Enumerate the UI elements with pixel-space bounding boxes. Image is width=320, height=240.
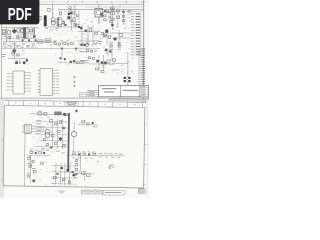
- inductor L1: [29, 30, 32, 32]
- IC U2: [7, 71, 31, 94]
- transistor Q23: [61, 167, 63, 169]
- PWM controller U1: [95, 4, 112, 24]
- capacitor C34: [68, 181, 70, 184]
- transformer T1: [21, 27, 28, 38]
- wire: [58, 9, 144, 11]
- wire: [112, 5, 114, 30]
- wire: [31, 125, 44, 127]
- diode D23: [73, 153, 76, 155]
- output rectifier D6: [128, 77, 130, 79]
- test points: [74, 76, 76, 86]
- wire: [3, 41, 56, 43]
- parts row right: [86, 50, 97, 60]
- net labels: [99, 41, 103, 44]
- capacitor bank C22: [109, 42, 113, 50]
- capacitor C6: [15, 61, 18, 64]
- net labels: [45, 28, 58, 31]
- fan motor M1: [71, 121, 77, 151]
- diode D4: [103, 61, 107, 65]
- resistor R32: [71, 171, 73, 173]
- capacitor C7b: [26, 59, 28, 61]
- diode D20: [63, 127, 65, 129]
- transistor Q1: [80, 27, 83, 30]
- svg-text:PDF: PDF: [8, 5, 32, 24]
- bridge rectifier BR2: [67, 10, 70, 20]
- transformer T2: [51, 17, 58, 26]
- fuse F1: [7, 28, 11, 42]
- resistor R25: [54, 142, 57, 144]
- ground: [18, 60, 21, 64]
- wire: [61, 49, 63, 57]
- diode D21: [58, 137, 62, 141]
- diode D22: [92, 122, 94, 124]
- wire: [68, 62, 90, 64]
- wire: [103, 10, 144, 12]
- capacitor C14: [110, 12, 114, 15]
- diode D24: [78, 153, 80, 155]
- capacitor C19: [119, 33, 123, 37]
- capacitor C31: [60, 120, 62, 123]
- wire: [51, 119, 53, 149]
- net label: [93, 125, 98, 128]
- left bottom parts: [27, 155, 37, 183]
- resistor R3: [48, 8, 51, 11]
- junction: [61, 48, 63, 50]
- wire: [81, 25, 83, 45]
- transformer T3 core: [67, 113, 70, 171]
- wire: [51, 165, 77, 167]
- wire: [69, 163, 71, 185]
- resistor R28: [83, 153, 86, 155]
- wire: [35, 120, 68, 123]
- net labels: [80, 51, 89, 61]
- transistor Q22: [45, 133, 50, 138]
- wire: [2, 48, 100, 50]
- primary side parts: [71, 10, 80, 28]
- transistor Q21: [45, 129, 50, 134]
- capacitor C32: [51, 134, 54, 137]
- wire: [107, 48, 109, 56]
- transistor Q24: [66, 169, 69, 172]
- wire: [112, 63, 128, 65]
- wire: [51, 4, 53, 17]
- capacitor C11: [76, 25, 79, 27]
- bridge rectifier BR1: [12, 28, 17, 34]
- wire: [23, 133, 26, 185]
- wire: [103, 55, 105, 70]
- secondary filter parts: [41, 139, 65, 154]
- IC U3: [37, 69, 59, 96]
- resistor R5: [95, 33, 98, 35]
- heatsink: [54, 111, 61, 115]
- resistor R33: [53, 177, 56, 179]
- resistor R21: [44, 113, 47, 116]
- scan texture: [2, 6, 134, 75]
- transistor Q6: [109, 50, 111, 52]
- wire: [31, 130, 44, 132]
- resistor R35: [41, 162, 44, 164]
- net labels: [72, 151, 123, 159]
- relay K1: [45, 39, 51, 43]
- wire: [79, 152, 81, 171]
- capacitor C13: [110, 7, 114, 9]
- resistor R9: [76, 62, 79, 64]
- resistor R6: [111, 18, 114, 20]
- wire: [78, 40, 100, 42]
- scan texture: [27, 113, 101, 186]
- transistor Q5: [105, 49, 107, 51]
- resistor R34: [62, 179, 65, 181]
- thermistor TH1: [13, 42, 16, 59]
- transistor Q7: [96, 60, 99, 63]
- output rectifier D7: [124, 80, 126, 82]
- feedback column: [122, 9, 131, 25]
- net labels: [36, 120, 41, 134]
- capacitor C5: [35, 39, 37, 41]
- resistor R4: [73, 18, 75, 22]
- wire: [112, 37, 130, 39]
- junction: [111, 9, 114, 12]
- diode D1: [70, 12, 72, 14]
- wire: [2, 38, 36, 40]
- resistor R7: [12, 52, 15, 54]
- thermal sensor: [75, 110, 77, 112]
- capacitor C2: [20, 29, 24, 33]
- capacitor C30: [67, 113, 69, 115]
- wire: [85, 6, 144, 8]
- capacitor C17: [104, 34, 107, 36]
- node text labels: [3, 44, 35, 48]
- transistor Q20: [63, 113, 66, 116]
- capacitor C16: [116, 16, 119, 19]
- wire: [127, 52, 129, 86]
- wire: [98, 55, 100, 70]
- connector CN1: [2, 30, 5, 35]
- snubber parts: [59, 18, 67, 27]
- net labels: [79, 43, 97, 46]
- wire: [92, 25, 94, 45]
- wire: [70, 154, 125, 157]
- wire: [34, 145, 67, 148]
- regulator column: [74, 159, 78, 178]
- wire: [74, 4, 76, 28]
- wire: [64, 163, 66, 185]
- wire: [8, 58, 28, 60]
- wire: [31, 128, 44, 130]
- wire: [61, 119, 63, 149]
- wire: [71, 10, 73, 31]
- U1 periphery parts: [104, 10, 112, 23]
- heatsink bar: [44, 15, 47, 26]
- capacitor C10: [62, 22, 65, 24]
- wire: [60, 163, 62, 185]
- transistor pair Q10: [81, 43, 89, 46]
- varistor RV1: [22, 39, 24, 41]
- transistor pair Q9: [105, 30, 108, 33]
- output rectifier D5: [124, 77, 126, 79]
- optocoupler U20: [79, 171, 94, 181]
- capacitor C4: [28, 39, 30, 41]
- wire: [55, 163, 57, 185]
- connector CN2: [131, 13, 141, 57]
- junction: [75, 48, 77, 50]
- resistor R30: [93, 153, 96, 155]
- resistor R26: [82, 121, 85, 123]
- wire: [56, 119, 58, 149]
- resistor R2: [38, 40, 43, 43]
- junction: [69, 7, 72, 10]
- wire: [90, 63, 115, 65]
- output rectifier D8: [128, 80, 130, 82]
- diode D3: [113, 37, 117, 41]
- resistor R27: [87, 123, 90, 125]
- wire: [39, 140, 67, 142]
- wire: [118, 30, 120, 46]
- wire: [106, 30, 108, 46]
- capacitor bank C23: [117, 42, 121, 50]
- wire: [51, 177, 77, 179]
- secondary rectifier row: [27, 150, 51, 156]
- wire: [111, 48, 113, 60]
- capacitor C8: [39, 16, 42, 20]
- wire: [34, 133, 67, 136]
- net label: [109, 165, 115, 169]
- capacitor C15: [116, 10, 119, 12]
- wire: [51, 183, 77, 185]
- net labels: [2, 54, 6, 57]
- wire: [40, 127, 68, 129]
- capacitor C1: [17, 29, 21, 33]
- transistor Q3: [70, 61, 72, 63]
- resistor R24: [57, 130, 60, 132]
- resistor R23: [55, 123, 58, 125]
- input filter extra parts: [3, 32, 31, 42]
- capacitor C12: [90, 28, 92, 32]
- transistor Q4: [73, 60, 75, 62]
- wire: [87, 25, 89, 45]
- transistor Q8: [101, 61, 103, 63]
- wire: [75, 49, 77, 52]
- wire: [39, 3, 144, 5]
- wire: [78, 31, 100, 33]
- resistor R20: [38, 111, 42, 115]
- wire: [2, 27, 39, 29]
- capacitor C33: [63, 144, 65, 147]
- connector CN4: [22, 124, 31, 133]
- wire: [78, 124, 98, 126]
- net labels: [80, 61, 85, 64]
- aux parts: [101, 32, 106, 37]
- wire: [51, 171, 77, 173]
- capacitor C18: [109, 36, 111, 39]
- resistor R22: [50, 120, 53, 123]
- wire: [44, 26, 80, 28]
- resistor R8: [17, 54, 20, 56]
- transistor Q2: [85, 30, 88, 32]
- wire: [112, 69, 120, 71]
- resistor R1: [33, 35, 36, 37]
- wire: [30, 113, 68, 116]
- sheet title text: [65, 102, 79, 106]
- capacitor C9: [59, 12, 61, 15]
- resistor R11: [101, 70, 104, 72]
- resistor R31: [56, 173, 58, 175]
- wire: [117, 8, 119, 28]
- middle parts row: [54, 40, 73, 45]
- capacitor C3: [33, 28, 34, 35]
- small cluster: [59, 57, 67, 63]
- wire: [110, 32, 130, 34]
- resistor R29: [88, 154, 90, 156]
- capacitor C21: [113, 59, 116, 61]
- connector CN3: [138, 48, 145, 90]
- capacitor C7: [23, 61, 26, 64]
- capacitor C20: [107, 60, 111, 64]
- resistor R10: [96, 68, 99, 70]
- diode D2: [111, 24, 114, 27]
- diode D25: [72, 173, 76, 177]
